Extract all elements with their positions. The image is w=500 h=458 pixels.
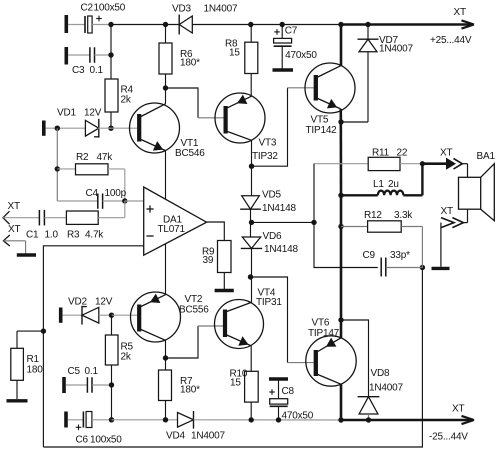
node rail / R7 <box>163 417 168 422</box>
wire VT1 emitter to op-amp V+ <box>165 151 167 199</box>
svg-text:TIP142: TIP142 <box>306 125 338 136</box>
node top rail / C7 <box>280 22 285 27</box>
node top rail / R8 <box>248 22 253 27</box>
svg-text:TL071: TL071 <box>158 224 186 235</box>
svg-text:180*: 180* <box>180 58 200 69</box>
wire R4 to VD1 node <box>110 112 112 128</box>
svg-text:1.0: 1.0 <box>45 230 59 241</box>
node rail / C6 R5 <box>109 417 114 422</box>
node rail / R10 <box>249 417 254 422</box>
capacitor C5 0.1 <box>66 366 112 393</box>
wire VD2 to VT2 base <box>112 314 138 316</box>
svg-text:2k: 2k <box>121 352 132 363</box>
ground (R9) <box>215 289 234 292</box>
svg-text:22: 22 <box>397 148 408 159</box>
node rail / C8 <box>276 417 281 422</box>
svg-text:12V: 12V <box>84 108 102 119</box>
ground (C2 left terminal) <box>65 15 69 33</box>
capacitor C1 1.0 <box>26 210 66 241</box>
wire VT3 collector down <box>251 140 253 196</box>
svg-text:C7: C7 <box>285 26 298 37</box>
wire bottom rail middle <box>194 419 341 421</box>
svg-text:R3: R3 <box>67 230 80 241</box>
svg-text:XT: XT <box>440 148 452 159</box>
svg-text:C4: C4 <box>86 188 99 199</box>
wire feedback bottom run <box>43 268 422 448</box>
node feedback / R12 / C9 <box>420 265 425 270</box>
wire VD1 to VT1 base <box>98 127 137 129</box>
wire VT2 collector <box>165 340 167 370</box>
svg-text:C5: C5 <box>68 366 81 377</box>
svg-text:1N4007: 1N4007 <box>204 4 238 15</box>
svg-text:+25...44V: +25...44V <box>430 35 472 46</box>
wire VT6 collector thick <box>340 384 343 420</box>
svg-text:1N4007: 1N4007 <box>369 383 403 394</box>
capacitor C3 0.1 <box>68 47 111 76</box>
svg-text:180: 180 <box>27 365 44 376</box>
transistor VT2 BC556 <box>131 292 210 342</box>
wire VT6 emitter thick <box>340 320 343 338</box>
svg-text:VD4: VD4 <box>166 431 185 442</box>
svg-text:47k: 47k <box>97 152 114 163</box>
wire to VT5 base <box>252 88 288 166</box>
node top rail / VT5 collector <box>338 22 343 27</box>
node top rail / R6 <box>163 22 168 27</box>
node output to speaker <box>420 161 425 166</box>
ground (C7) <box>273 68 294 71</box>
wire R2 right to + input node <box>124 169 126 201</box>
op-amp DA1 TL071 <box>144 187 207 255</box>
capacitor C4 100p <box>57 188 126 209</box>
node VD1 / R2 column <box>55 126 60 131</box>
wire R5 column to rail <box>111 385 113 420</box>
node top rail / VD7 <box>365 22 370 27</box>
wire R11 tap down <box>313 164 315 223</box>
svg-text:0.1: 0.1 <box>90 65 104 76</box>
svg-text:VD6: VD6 <box>263 231 282 242</box>
connector XT +25...44V <box>430 7 474 46</box>
diode VD5 1N4148 <box>240 190 296 214</box>
svg-text:1N4148: 1N4148 <box>262 203 296 214</box>
svg-text:C9: C9 <box>363 250 376 261</box>
svg-text:33p*: 33p* <box>390 250 410 261</box>
svg-text:L1: L1 <box>373 179 384 190</box>
transistor VT1 BC546 <box>130 103 206 159</box>
connector XT input signal <box>3 201 40 224</box>
wire to VT4 base <box>166 326 199 358</box>
node VT2 collector / R7 / VT4 branch <box>163 355 168 360</box>
resistor R8 15 <box>225 25 258 97</box>
wire VD5 to mid node <box>250 209 252 237</box>
svg-text:VD8: VD8 <box>371 368 390 379</box>
node VD2 / R5 <box>109 313 114 318</box>
resistor R6 180* <box>159 25 200 89</box>
ground (VD1 left terminal) <box>42 121 46 136</box>
wire VT5 collector thick <box>340 25 343 66</box>
resistor R10 15 <box>230 346 259 420</box>
wire node to VT3 base <box>166 88 199 118</box>
svg-text:C3: C3 <box>72 65 85 76</box>
svg-text:VD2: VD2 <box>68 297 87 308</box>
resistor R2 47k <box>57 152 125 175</box>
wire output rail thick middle <box>340 195 343 320</box>
node R6 / VT1 / VT3 base <box>163 85 168 90</box>
transistor VT5 TIP142 <box>305 63 355 136</box>
connector XT speaker return <box>441 206 468 267</box>
resistor R5 2k <box>105 315 133 385</box>
connector XT input ground <box>3 224 25 254</box>
svg-text:XT: XT <box>441 206 453 217</box>
svg-text:0.1: 0.1 <box>85 366 99 377</box>
transistor VT6 TIP147 <box>306 318 356 386</box>
svg-text:TIP32: TIP32 <box>252 151 278 162</box>
svg-text:2k: 2k <box>121 95 132 106</box>
node VT5 emitter / VD7 <box>338 119 343 124</box>
svg-text:-25...44V: -25...44V <box>429 432 468 443</box>
ground (C6 left terminal) <box>64 412 68 428</box>
wire VD8 link <box>341 320 369 396</box>
svg-text:1N4007: 1N4007 <box>379 43 413 54</box>
capacitor C6 100x50 electrolytic <box>68 412 122 446</box>
ground (R1) <box>7 399 28 402</box>
resistor R4 2k <box>105 79 134 112</box>
wire VD7 anode link <box>341 121 368 123</box>
svg-text:3.3k: 3.3k <box>394 210 413 221</box>
svg-text:R1: R1 <box>27 354 40 365</box>
diode VD2 12V zener <box>63 297 113 325</box>
node output rail / L1 <box>338 193 343 198</box>
node VD6 / VT6 base branch <box>248 274 253 279</box>
svg-text:VD3: VD3 <box>172 4 191 15</box>
inductor L1 2u <box>341 179 422 195</box>
node VD1 / R4 <box>108 126 113 131</box>
svg-text:470x50: 470x50 <box>285 50 317 61</box>
transistor VT4 TIP31 <box>215 288 283 349</box>
svg-text:2u: 2u <box>388 179 399 190</box>
wire VT5 emitter thick <box>339 109 342 195</box>
node output rail / R12 <box>338 224 343 229</box>
ground (input jack) <box>17 253 36 256</box>
ground (speaker return) <box>432 267 450 270</box>
svg-text:100x50: 100x50 <box>94 3 126 14</box>
resistor R11 22 <box>314 148 422 171</box>
svg-text:TIP147: TIP147 <box>308 328 340 339</box>
ground (C3 left terminal) <box>65 47 69 65</box>
diode VD6 1N4148 <box>241 231 299 255</box>
wire mid junction <box>252 221 315 223</box>
wire XT output column thick <box>421 164 423 196</box>
speaker BA1 <box>459 151 496 223</box>
svg-text:R2: R2 <box>76 152 89 163</box>
node C3 / R4 column <box>108 52 113 57</box>
wire top rail middle section <box>192 24 341 26</box>
capacitor C2 100x50 electrolytic <box>68 3 126 33</box>
transistor VT3 TIP32 <box>215 93 278 162</box>
svg-text:180*: 180* <box>180 385 200 396</box>
svg-text:C6: C6 <box>76 435 89 446</box>
svg-text:TIP31: TIP31 <box>256 297 282 308</box>
node VT3 collector / VT5 base branch <box>249 164 254 169</box>
svg-text:R11: R11 <box>372 148 390 159</box>
node rail / VT6 <box>338 417 343 422</box>
svg-text:R12: R12 <box>364 210 382 221</box>
resistor R9 39 <box>202 241 231 290</box>
wire R11 branch to C9 <box>314 222 378 267</box>
node C5 / R5 <box>109 382 114 387</box>
node op-amp + input <box>122 198 127 203</box>
capacitor C7 470x50 electrolytic <box>274 25 318 69</box>
wire C2 node to R4 <box>110 25 112 80</box>
diode VD3 1N4007 <box>172 4 238 35</box>
svg-text:VT3: VT3 <box>259 138 277 149</box>
wire top rail thick to XT <box>341 23 471 26</box>
svg-text:1N4007: 1N4007 <box>191 431 225 442</box>
svg-text:VT2: VT2 <box>185 294 203 305</box>
node rail / VD8 <box>366 417 371 422</box>
wire - input <box>43 246 143 447</box>
svg-text:XT: XT <box>8 201 20 212</box>
wire VT1 collector to R6 node <box>165 88 167 104</box>
ground (C5 left terminal) <box>62 377 66 393</box>
resistor R1 180 <box>11 331 44 399</box>
svg-text:XT: XT <box>452 404 464 415</box>
wire + input <box>125 200 144 202</box>
diode VD7 1N4007 <box>358 25 414 123</box>
wire bottom rail left <box>112 419 178 421</box>
wire top rail left section <box>111 24 179 26</box>
ground (VD2 left terminal) <box>59 308 63 323</box>
connector XT -25...44V <box>429 404 474 443</box>
resistor R7 180* <box>159 370 201 420</box>
wire VD1 row <box>46 127 86 129</box>
node top rail / C2 <box>108 22 113 27</box>
resistor R12 3.3k <box>341 210 422 267</box>
node mid VD5/VD6 <box>249 220 254 225</box>
svg-text:15: 15 <box>229 48 240 59</box>
svg-text:BC546: BC546 <box>175 148 205 159</box>
wire bottom rail thick to XT <box>341 419 471 422</box>
svg-text:C8: C8 <box>282 386 295 397</box>
svg-text:4.7k: 4.7k <box>85 230 104 241</box>
svg-text:100x50: 100x50 <box>90 435 122 446</box>
svg-text:XT: XT <box>454 7 466 18</box>
ground (C8) <box>269 377 288 380</box>
node R2 left <box>55 166 60 171</box>
svg-text:C2: C2 <box>81 3 94 14</box>
svg-text:39: 39 <box>203 255 214 266</box>
wire VD6 to VT4 collector <box>251 248 253 302</box>
svg-text:1N4148: 1N4148 <box>264 244 298 255</box>
diode VD4 1N4007 <box>166 411 225 442</box>
wire to VT6 base <box>251 277 288 363</box>
svg-text:C1: C1 <box>26 230 39 241</box>
diode VD1 12V zener <box>57 108 102 138</box>
node - input / R1 <box>41 328 46 333</box>
svg-text:12V: 12V <box>95 297 113 308</box>
svg-text:100p: 100p <box>105 188 127 199</box>
diode VD8 1N4007 <box>358 368 404 420</box>
svg-text:XT: XT <box>8 224 20 235</box>
wire R2 column <box>56 128 58 201</box>
capacitor C8 470x50 electrolytic <box>269 381 314 422</box>
wire op-amp output <box>207 222 225 241</box>
svg-text:VD5: VD5 <box>262 190 281 201</box>
svg-text:VD1: VD1 <box>57 108 76 119</box>
capacitor C9 33p* <box>363 250 423 277</box>
svg-text:BC556: BC556 <box>179 305 209 316</box>
resistor R3 4.7k <box>66 201 124 241</box>
wire op-amp V- to VT2 <box>165 244 167 295</box>
node VT6 emitter / VD8 <box>338 317 343 322</box>
svg-text:15: 15 <box>230 378 241 389</box>
svg-text:BA1: BA1 <box>477 151 496 162</box>
node VD5-VD6 mid / R11 branch <box>311 220 316 225</box>
connector XT speaker + <box>422 148 467 170</box>
